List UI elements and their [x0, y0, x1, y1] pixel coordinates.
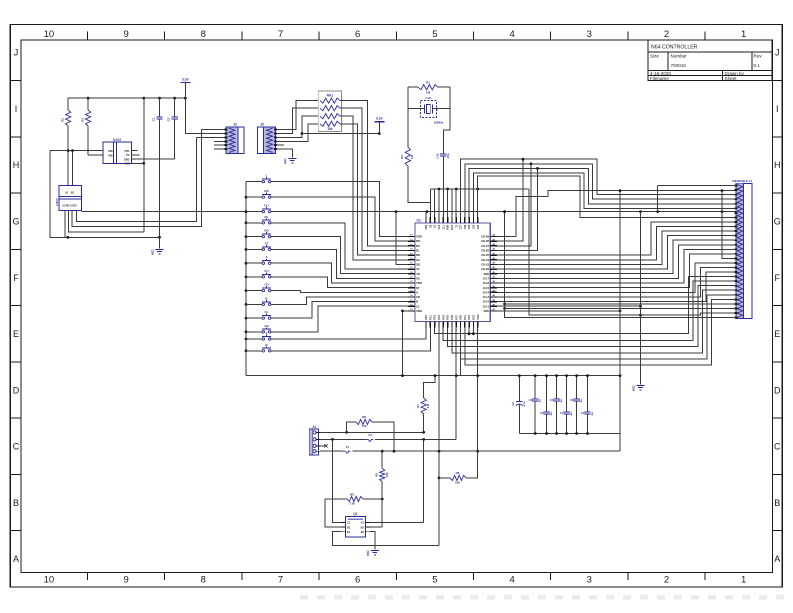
node RA1c 3.3v tap: [301, 132, 304, 135]
ground Q1: [371, 550, 379, 552]
wire J1 pin27 feed: [503, 303, 736, 306]
wire RA1b right trunk: [340, 108, 408, 250]
wire top pins to clock rail: [431, 189, 457, 217]
wire data rail 3: [469, 168, 736, 216]
wire U1 bottom pin 5 to J1: [443, 281, 736, 341]
svg-text:B1: B1: [347, 525, 351, 529]
svg-text:J2: J2: [233, 123, 237, 127]
svg-text:D2: D2: [73, 204, 77, 208]
wire J4 pin2 row F2: [320, 438, 456, 441]
svg-text:10p: 10p: [446, 153, 450, 158]
wire U1 right pin 5 to J1: [497, 222, 736, 255]
svg-text:E: E: [774, 329, 780, 339]
switch DR: [262, 189, 271, 198]
svg-text:8: 8: [201, 29, 206, 40]
svg-text:VDD: VDD: [416, 309, 422, 313]
wire CD left lead: [246, 290, 262, 292]
svg-text:3: 3: [587, 575, 592, 586]
wire U1 bottom pin 12 drop: [472, 328, 475, 336]
svg-text:CU: CU: [264, 269, 268, 273]
crystal X1: [408, 96, 450, 125]
svg-text:C: C: [13, 442, 20, 452]
wire Q1 c1: [333, 439, 342, 522]
svg-text:10k: 10k: [327, 127, 333, 131]
wire J1 pin28 feed: [503, 307, 736, 310]
wire Q1 e1 loop: [333, 532, 440, 546]
svg-text:C25: C25: [468, 224, 471, 229]
svg-text:R4: R4: [400, 155, 404, 159]
wire B left lead: [246, 303, 262, 305]
wire U1 right pin 1 to J1 pin2: [497, 189, 736, 236]
wire Q1 c2: [370, 521, 424, 523]
svg-text:.1u: .1u: [538, 399, 542, 403]
svg-text:D: D: [774, 385, 781, 395]
svg-text:2: 2: [664, 575, 669, 586]
capacitor C8: [570, 374, 583, 435]
svg-text:VIN+: VIN+: [108, 153, 114, 157]
transistor pair Q1: [341, 512, 370, 537]
resistor R7: [416, 374, 436, 432]
audio codec U300: [55, 186, 82, 211]
svg-text:XA: XA: [416, 277, 420, 281]
capacitor C12: [435, 153, 450, 159]
wire CL to U1: [271, 302, 408, 319]
wire U1 bottom pin 11 drop: [468, 328, 471, 336]
wire R left lead: [246, 350, 262, 352]
svg-text:ST: ST: [416, 286, 420, 290]
svg-text:R5: R5: [350, 492, 354, 496]
svg-text:U1V2: U1V2: [113, 138, 121, 142]
svg-text:B: B: [13, 498, 19, 508]
resistor R8 bypass: [347, 415, 394, 451]
wire U1 right pin 10 to J1: [497, 245, 736, 279]
svg-text:P33: P33: [473, 315, 476, 320]
svg-text:.1u: .1u: [569, 412, 573, 416]
svg-text:VDD: VDD: [483, 309, 489, 313]
svg-text:6: 6: [355, 29, 360, 40]
svg-text:5: 5: [432, 575, 437, 586]
switch DU: [262, 204, 271, 213]
wire R7 column down: [423, 439, 425, 522]
svg-text:F2: F2: [369, 433, 373, 437]
svg-text:C26: C26: [464, 224, 467, 229]
wire J1 pin2 branch to pin17: [722, 191, 736, 259]
svg-text:7.5k: 7.5k: [349, 502, 355, 506]
wire ST left lead: [246, 248, 262, 250]
wire U1 right pin 15 to J1: [497, 272, 736, 302]
switch CD: [262, 283, 271, 292]
J2 pin marks: [224, 129, 227, 151]
wire J3 pin2 to RA1b: [276, 108, 319, 133]
svg-text:P22: P22: [434, 315, 437, 320]
svg-text:R6: R6: [456, 471, 460, 475]
resistor R4: [400, 147, 414, 166]
wire CL left lead: [246, 317, 262, 319]
svg-text:DR: DR: [416, 239, 420, 243]
resistor R6: [438, 451, 478, 484]
wire U1 right pin 7 to J1: [497, 231, 736, 264]
svg-text:SB: SB: [416, 263, 420, 267]
wire crystal right leg to pin: [442, 156, 444, 223]
resistor network RA1: [318, 91, 341, 131]
svg-text:CH-23: CH-23: [481, 263, 489, 267]
svg-text:F: F: [775, 273, 781, 283]
power 3.3v audio: [180, 78, 190, 99]
svg-text:C3: C3: [529, 398, 533, 402]
wire common rail: [81, 210, 736, 213]
svg-text:P25: P25: [447, 315, 450, 320]
wire cap bank bottom rail: [519, 434, 620, 452]
wire DR left lead: [246, 196, 262, 198]
svg-text:DU: DU: [416, 244, 420, 248]
svg-text:CD: CD: [416, 295, 420, 299]
wire U1 bottom pin 3 to J1: [435, 277, 736, 334]
svg-text:10k: 10k: [455, 480, 460, 484]
svg-text:R7: R7: [416, 404, 420, 408]
svg-text:Q1: Q1: [353, 512, 357, 516]
switch Z: [262, 331, 271, 340]
svg-text:.1u: .1u: [559, 399, 563, 403]
svg-text:0.1: 0.1: [754, 63, 761, 68]
svg-text:DD: DD: [416, 253, 420, 257]
wire RA1c right trunk: [340, 116, 408, 260]
switch A: [262, 255, 271, 264]
svg-text:J: J: [14, 48, 19, 58]
capacitor C4: [511, 374, 526, 433]
capacitor C7: [560, 374, 573, 435]
wire DU left lead: [246, 211, 262, 213]
wire button common bus: [245, 182, 248, 376]
wire data rail 1: [461, 159, 737, 217]
wire L to U1: [271, 182, 408, 237]
svg-text:DU: DU: [264, 204, 268, 208]
svg-text:VIN-: VIN-: [108, 149, 113, 153]
svg-text:C2: C2: [167, 117, 171, 121]
svg-text:G: G: [12, 217, 19, 227]
svg-text:E: E: [13, 329, 19, 339]
svg-text:VSS: VSS: [477, 314, 480, 319]
svg-text:J: J: [775, 48, 780, 58]
wire Q1 b1: [325, 499, 341, 527]
svg-text:8: 8: [152, 252, 154, 256]
wire U1 bottom pin 7 to J1: [452, 290, 736, 353]
svg-text:VIEWABLE J1: VIEWABLE J1: [732, 179, 752, 183]
svg-text:10k: 10k: [385, 472, 389, 477]
svg-text:3: 3: [587, 29, 592, 40]
svg-text:A: A: [13, 554, 19, 564]
switch CL: [262, 310, 271, 319]
svg-text:VDD: VDD: [447, 225, 450, 230]
wire U1 right pin 17 to cap rail: [497, 310, 621, 313]
svg-text:VSS: VSS: [425, 224, 428, 229]
wire crystal left leg to pin: [408, 166, 431, 223]
J3 pin marks: [274, 129, 277, 151]
wire CU left lead: [246, 276, 262, 278]
wire U1 right pin 4 up: [497, 167, 539, 250]
svg-text:8: 8: [284, 161, 286, 165]
wire data rail 2: [465, 164, 736, 217]
wire RA1a right trunk: [340, 101, 408, 246]
svg-text:U1: U1: [417, 218, 421, 222]
node rail dots: [87, 97, 187, 100]
wire Q1 e2 ground: [370, 532, 375, 550]
svg-text:C2: C2: [511, 402, 515, 406]
wire U1 bottom pin 6 to J1: [448, 286, 736, 347]
svg-text:C9: C9: [581, 411, 585, 415]
wire U2 outputs: [132, 151, 175, 165]
svg-text:700010: 700010: [671, 63, 687, 68]
capacitor C1: [152, 98, 163, 237]
svg-text:VDD: VDD: [483, 272, 489, 276]
svg-text:N64 CONTROLLER: N64 CONTROLLER: [651, 44, 698, 50]
svg-text:H: H: [774, 160, 781, 170]
svg-text:DL: DL: [265, 215, 269, 219]
svg-text:RA1: RA1: [327, 93, 334, 97]
svg-text:CL: CL: [416, 304, 420, 308]
wire U1 bottom pin 9 to J1: [461, 295, 737, 359]
svg-text:PS1: PS1: [125, 149, 130, 153]
wire J1 pin1: [658, 186, 736, 212]
connector J3: [257, 123, 275, 154]
wire VCC drop: [143, 98, 145, 232]
connector J1: [732, 179, 752, 319]
wire J2 pin3: [197, 136, 226, 138]
svg-text:8: 8: [201, 575, 206, 586]
svg-text:B: B: [416, 300, 418, 304]
svg-text:CH-4: CH-4: [483, 290, 490, 294]
wire ground/plane bottom rail: [246, 375, 620, 377]
wire R9 to Q1: [381, 498, 384, 527]
wire A to U1: [271, 263, 408, 283]
svg-text:.1u: .1u: [579, 399, 583, 403]
wire U1 right pin 8 to J1: [497, 236, 736, 270]
svg-text:P21: P21: [429, 315, 432, 320]
svg-text:CH-27: CH-27: [481, 244, 489, 248]
svg-text:1M: 1M: [426, 403, 430, 408]
wire U1 bottom pin9 to rail: [460, 328, 462, 376]
svg-text:R2: R2: [61, 118, 65, 122]
svg-text:Filename: Filename: [650, 76, 669, 81]
fuse F2: [365, 433, 373, 441]
svg-text:VDD: VDD: [416, 281, 422, 285]
svg-text:.1u: .1u: [549, 412, 553, 416]
power 3.3v RA1: [374, 117, 384, 134]
fuse F1: [343, 445, 351, 453]
svg-text:B2: B2: [361, 525, 365, 529]
svg-text:9: 9: [123, 575, 128, 586]
wire J2 pin1: [202, 129, 226, 131]
svg-text:5: 5: [432, 29, 437, 40]
svg-text:C1: C1: [152, 117, 156, 121]
op-amp U2: [103, 138, 132, 166]
wire DD to U1: [271, 237, 408, 274]
svg-text:C: C: [774, 442, 781, 452]
wire ST to U1: [271, 249, 408, 278]
switch CU: [262, 269, 271, 278]
svg-text:A: A: [416, 290, 418, 294]
svg-text:2: 2: [664, 29, 669, 40]
svg-text:PV: PV: [126, 153, 130, 157]
svg-text:B: B: [774, 498, 780, 508]
wire J3 pin3 to RA1c: [276, 116, 319, 137]
wire U300 pin rows: [65, 130, 202, 239]
svg-text:CH-22: CH-22: [481, 267, 489, 271]
wire J4 pin4 row F1: [320, 450, 620, 453]
wire crystal right leg: [443, 87, 450, 154]
svg-text:C12: C12: [435, 153, 439, 159]
svg-text:SA: SA: [416, 258, 420, 262]
svg-text:CH-6: CH-6: [483, 281, 490, 285]
wire CR to U1: [271, 306, 408, 332]
ground right: [637, 385, 645, 387]
svg-text:YB: YB: [416, 272, 420, 276]
svg-text:D: D: [13, 385, 20, 395]
svg-text:F: F: [13, 273, 19, 283]
svg-text:7: 7: [278, 29, 283, 40]
wire DL to U1: [271, 223, 408, 269]
svg-text:R1: R1: [426, 81, 430, 85]
wire clock rail down branch: [529, 189, 736, 317]
svg-text:E2: E2: [361, 530, 365, 534]
wire J3 pin5 stub: [276, 144, 284, 146]
svg-text:P31: P31: [464, 315, 467, 320]
svg-text:4: 4: [509, 575, 514, 586]
svg-text:CH-7: CH-7: [483, 277, 490, 281]
capacitor C2: [167, 98, 178, 159]
svg-text:CH-24: CH-24: [481, 258, 489, 262]
svg-text:C7: C7: [560, 411, 564, 415]
svg-text:1M: 1M: [426, 91, 431, 95]
switch DL: [262, 215, 271, 224]
ground audio: [151, 237, 163, 256]
wire DD left lead: [246, 236, 262, 238]
svg-text:B1: B1: [71, 191, 75, 195]
wire L left lead: [246, 181, 262, 183]
wire U300 top pins: [68, 151, 72, 186]
svg-text:YA: YA: [416, 267, 420, 271]
resistor R2: [61, 98, 71, 151]
svg-text:3.3v: 3.3v: [376, 117, 383, 121]
wire U1 bottom pin13 down: [476, 328, 479, 453]
resistor R9: [375, 451, 390, 499]
svg-text:P27: P27: [455, 315, 458, 320]
svg-text:700: 700: [361, 424, 366, 428]
resistor R3: [81, 98, 91, 155]
wire U1 left VSS pin to rail: [401, 310, 408, 378]
wire Z left lead: [246, 338, 262, 340]
svg-text:8: 8: [633, 388, 635, 392]
capacitor C5: [540, 374, 553, 435]
wire J2 pins 4-6 stubs: [214, 141, 226, 149]
ground J3: [288, 158, 296, 160]
wire J4 pin1 row: [320, 431, 425, 434]
svg-text:C24: C24: [473, 224, 476, 229]
wire clock rail: [431, 188, 530, 191]
wire U1 right pin 14 to J1: [497, 268, 736, 297]
svg-text:Sheet: Sheet: [725, 76, 738, 81]
wire DR to U1: [271, 197, 408, 241]
svg-text:R9: R9: [375, 473, 379, 477]
resistor R1: [408, 81, 450, 95]
svg-text:C6: C6: [550, 398, 554, 402]
connector J2: [226, 123, 244, 154]
capacitor C6: [550, 374, 563, 435]
svg-text:CH-3: CH-3: [483, 295, 490, 299]
svg-text:C1: C1: [347, 521, 351, 525]
wire J4 pin3 no-connect: [320, 444, 328, 447]
wire U1 bottom pin4 long drop: [438, 328, 440, 546]
switch R: [262, 343, 271, 352]
svg-text:P26: P26: [451, 315, 454, 320]
svg-text:F1: F1: [346, 445, 350, 449]
svg-text:8: 8: [367, 553, 369, 557]
svg-text:CH-28: CH-28: [481, 239, 489, 243]
svg-text:6: 6: [355, 575, 360, 586]
svg-text:DL: DL: [416, 249, 420, 253]
wire DL left lead: [246, 222, 262, 224]
svg-text:J4: J4: [312, 425, 316, 429]
faint gray strip below sheet: [300, 595, 793, 600]
svg-text:R8: R8: [362, 415, 366, 419]
svg-text:G: G: [774, 217, 781, 227]
svg-text:C23: C23: [477, 224, 480, 229]
wire DU to U1: [396, 212, 408, 265]
svg-text:Rev: Rev: [754, 54, 763, 59]
svg-text:10: 10: [44, 575, 55, 586]
resistor R5: [325, 492, 382, 505]
wire CU to U1: [271, 277, 408, 288]
svg-text:3.3v: 3.3v: [182, 78, 189, 82]
svg-text:RST: RST: [451, 224, 454, 229]
wire U1 right pin 2 up: [497, 158, 524, 241]
svg-text:R3: R3: [81, 118, 85, 122]
svg-text:CL1: CL1: [442, 224, 445, 229]
connector J4: [309, 425, 320, 455]
wire cap bank right drop: [619, 189, 622, 433]
wire U1 bottom pin8 down: [455, 328, 458, 440]
capacitor C3: [529, 374, 542, 435]
wire U1 bottom pin 10 to J1: [465, 299, 736, 364]
svg-text:Number: Number: [671, 54, 688, 59]
svg-text:P20: P20: [425, 315, 428, 320]
wire U1 right pin 12 to J1: [497, 254, 736, 288]
svg-text:C2: C2: [361, 521, 365, 525]
svg-text:C8: C8: [570, 398, 574, 402]
svg-text:9: 9: [123, 29, 128, 40]
svg-text:Size: Size: [650, 54, 659, 59]
svg-text:A1: A1: [65, 191, 69, 195]
capacitor C9: [581, 374, 594, 435]
wire ground branch: [640, 212, 642, 385]
svg-text:10: 10: [44, 29, 55, 40]
svg-text:C27: C27: [460, 224, 463, 229]
wire audio loop left: [50, 151, 68, 238]
svg-text:E1: E1: [347, 530, 351, 534]
svg-text:H: H: [13, 160, 20, 170]
svg-text:U300: U300: [55, 198, 59, 206]
wire top pin k0 to common rail: [425, 212, 427, 217]
svg-text:CLK: CLK: [425, 96, 432, 100]
svg-text:P30: P30: [460, 315, 463, 320]
svg-text:P23: P23: [438, 315, 441, 320]
wire 3.3v pullup rail: [302, 132, 381, 135]
svg-text:ST: ST: [265, 241, 269, 245]
svg-text:C5: C5: [540, 411, 544, 415]
wire common rail to J1 pin30: [503, 210, 736, 317]
svg-text:Z: Z: [266, 331, 268, 335]
wire U1 right pin 13 to J1: [497, 263, 736, 292]
wire CR left lead: [246, 331, 262, 333]
